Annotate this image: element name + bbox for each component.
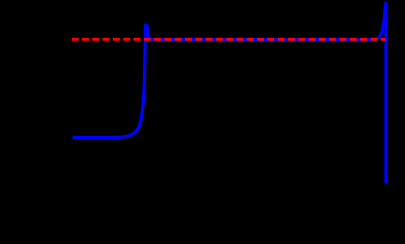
blue curve [73,3,386,183]
red dashed horizontal line [72,38,386,41]
